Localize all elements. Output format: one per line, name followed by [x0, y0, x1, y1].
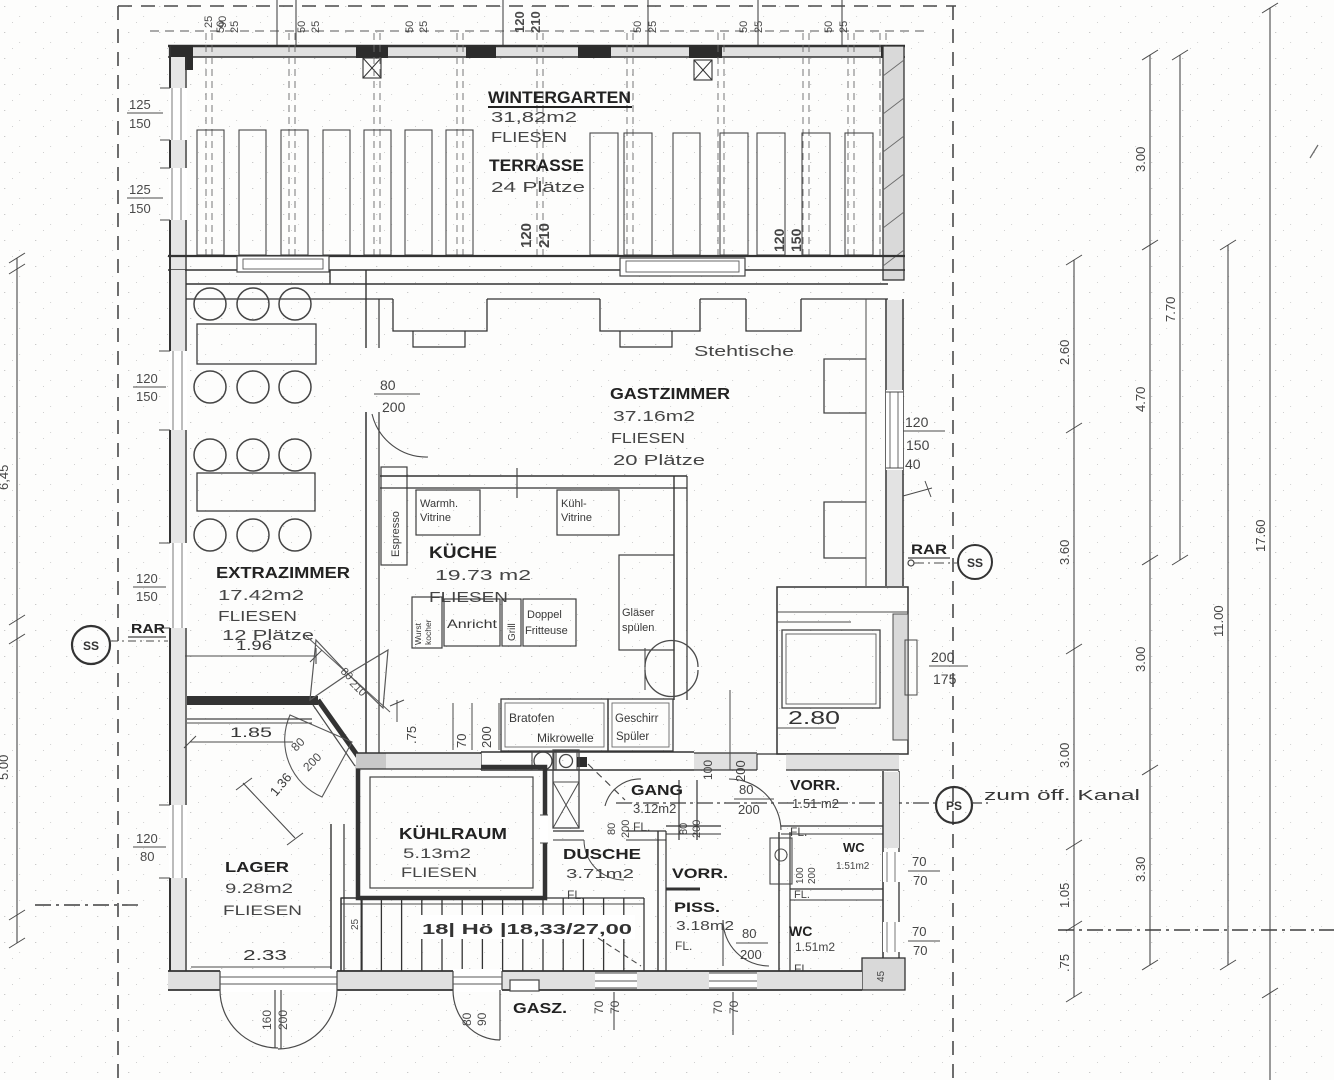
svg-text:17.42m2: 17.42m2: [218, 587, 304, 604]
window bay 3: [746, 299, 801, 331]
svg-text:FL.: FL.: [675, 939, 692, 953]
svg-text:zum öff. Kanal: zum öff. Kanal: [984, 787, 1140, 804]
fixture inner: [782, 630, 880, 708]
svg-text:5.13m2: 5.13m2: [403, 845, 471, 861]
svg-text:210: 210: [536, 223, 553, 248]
bottom wall door gap lager: [220, 969, 337, 992]
corridor door left arc: [605, 779, 641, 806]
svg-text:Doppel: Doppel: [527, 609, 562, 621]
svg-text:100: 100: [701, 760, 715, 780]
dimension chain B: [1149, 55, 1151, 965]
diagonal wall to kuehlraum: [318, 700, 362, 762]
svg-text:Geschirr: Geschirr: [615, 713, 659, 725]
svg-text:SS: SS: [83, 639, 99, 653]
post dashed lines: [205, 33, 207, 255]
washbasin: [770, 838, 792, 884]
svg-text:VORR.: VORR.: [790, 777, 840, 794]
fan door at diagonal: [285, 715, 352, 797]
svg-text:70: 70: [727, 1000, 741, 1014]
espresso counter: [381, 467, 407, 565]
svg-text:2.60: 2.60: [1057, 340, 1072, 365]
svg-text:LAGER: LAGER: [225, 859, 289, 876]
svg-text:120: 120: [518, 223, 535, 248]
svg-text:120: 120: [512, 11, 527, 33]
svg-text:WC: WC: [843, 840, 865, 855]
svg-text:spülen: spülen: [622, 622, 654, 634]
svg-text:.75: .75: [404, 726, 419, 744]
svg-text:20 Plätze: 20 Plätze: [613, 452, 705, 469]
kuehlraum outer wall: [358, 767, 545, 898]
svg-text:Stehtische: Stehtische: [694, 343, 794, 360]
svg-text:3.60: 3.60: [1057, 540, 1072, 565]
svg-text:6,45: 6,45: [0, 465, 11, 490]
svg-text:2.80: 2.80: [788, 708, 840, 728]
svg-text:150: 150: [906, 437, 930, 453]
terrace bottom wall: [168, 255, 905, 257]
svg-text:Anricht: Anricht: [447, 617, 498, 631]
dimension chain A: [1073, 260, 1075, 997]
dash-dot to SS circle: [914, 562, 957, 564]
svg-text:FLIESEN: FLIESEN: [401, 864, 477, 880]
east wall niche upper: [824, 359, 866, 413]
svg-text:4.70: 4.70: [1133, 387, 1148, 412]
dimension line 7.70: [1179, 55, 1181, 560]
extrazimmer south wall: [187, 696, 318, 705]
svg-text:Spüler: Spüler: [616, 731, 649, 743]
post detail x-boxes: [363, 58, 381, 78]
svg-text:1.51m2: 1.51m2: [795, 940, 835, 954]
svg-text:200: 200: [479, 726, 494, 748]
svg-text:24 Plätze: 24 Plätze: [491, 179, 585, 196]
window bay 2: [600, 299, 700, 331]
svg-text:2.33: 2.33: [243, 947, 287, 964]
svg-text:FL.: FL.: [567, 888, 584, 902]
kitchen west wall upper stub: [365, 270, 367, 348]
label GASZ: [510, 980, 539, 991]
svg-text:50: 50: [738, 21, 750, 33]
svg-text:120: 120: [136, 831, 158, 846]
wall between wcs: [790, 888, 883, 890]
svg-text:FLIESEN: FLIESEN: [491, 129, 567, 146]
bottom wall threshold 4: [709, 973, 757, 988]
wall band right of counter: [694, 753, 757, 770]
geschirrspueler: [608, 699, 673, 751]
svg-text:80: 80: [460, 1012, 474, 1026]
svg-text:PS: PS: [946, 799, 962, 813]
stairs: [341, 897, 644, 899]
svg-text:VORR.: VORR.: [672, 865, 728, 881]
corridor door mid: [678, 780, 680, 840]
svg-text:200: 200: [807, 867, 818, 884]
svg-text:120: 120: [771, 228, 787, 252]
svg-text:RAR: RAR: [131, 621, 166, 636]
svg-text:25: 25: [310, 21, 322, 33]
single door arc bottom: [453, 990, 500, 1040]
svg-text:FL.: FL.: [633, 820, 650, 834]
svg-text:DUSCHE: DUSCHE: [563, 846, 641, 863]
svg-text:50: 50: [632, 21, 644, 33]
svg-text:200: 200: [733, 760, 748, 782]
svg-text:Fritteuse: Fritteuse: [525, 625, 568, 637]
svg-text:3.71m2: 3.71m2: [566, 866, 634, 881]
svg-text:GANG: GANG: [631, 782, 683, 799]
terrace left wall: [171, 57, 185, 270]
svg-text:80: 80: [742, 926, 756, 941]
svg-text:Grill: Grill: [507, 623, 518, 641]
shower stall: [553, 750, 579, 828]
kuehlraum door gap: [540, 815, 548, 843]
svg-text:120: 120: [136, 571, 158, 586]
svg-text:70: 70: [592, 1000, 606, 1014]
svg-text:80: 80: [606, 823, 618, 835]
svg-text:50: 50: [404, 21, 416, 33]
svg-text:Kühl-: Kühl-: [561, 498, 587, 510]
svg-text:GASZ.: GASZ.: [513, 1000, 567, 1017]
property boundary dashed top: [118, 5, 956, 7]
svg-text:FL.: FL.: [794, 889, 810, 901]
svg-text:7.70: 7.70: [1163, 297, 1178, 322]
wall dusche-vorr: [657, 831, 659, 971]
svg-text:70: 70: [912, 924, 926, 939]
vorr door arc: [729, 779, 781, 830]
svg-text:Warmh.: Warmh.: [420, 498, 458, 510]
svg-text:3.00: 3.00: [1133, 147, 1148, 172]
terrace planks right group: [590, 133, 618, 255]
svg-text:25: 25: [753, 21, 765, 33]
kuehl vitrine: [557, 490, 619, 535]
building bottom wall: [168, 971, 862, 990]
extrazimmer table 2: [197, 473, 315, 511]
svg-text:70: 70: [913, 943, 927, 958]
terrace door threshold left: [237, 256, 329, 272]
svg-text:80: 80: [140, 849, 154, 864]
terrace planks left group: [197, 130, 224, 255]
svg-text:160: 160: [260, 1010, 274, 1030]
svg-text:25: 25: [647, 21, 659, 33]
terrace door threshold right: [620, 258, 745, 276]
east wall niche lower: [824, 502, 866, 558]
stair walking line: [598, 938, 641, 966]
east wall window: [886, 390, 903, 470]
wintergarten top wall: [168, 46, 905, 57]
svg-text:3.00: 3.00: [1133, 647, 1148, 672]
svg-text:1.85: 1.85: [230, 724, 272, 740]
wc top wall: [781, 825, 883, 827]
svg-text:120: 120: [905, 414, 929, 430]
inner dashed line above terrace wall: [150, 30, 930, 32]
terrace left wall windows: [169, 88, 187, 140]
wc door arc: [723, 920, 769, 966]
dimension line 17.60: [1269, 8, 1271, 1080]
svg-text:TERRASSE: TERRASSE: [489, 157, 584, 175]
svg-text:RAR: RAR: [911, 541, 947, 557]
svg-text:25: 25: [203, 16, 215, 28]
svg-text:11.00: 11.00: [1211, 605, 1226, 637]
svg-text:Wurst: Wurst: [413, 622, 423, 645]
svg-text:1.51 m2: 1.51 m2: [792, 796, 839, 811]
svg-text:200: 200: [931, 649, 955, 665]
svg-text:5.00: 5.00: [0, 755, 11, 780]
svg-text:100: 100: [795, 867, 806, 884]
walking line dashed: [588, 764, 625, 800]
svg-text:18| Hö |18,33/27,00: 18| Hö |18,33/27,00: [422, 921, 632, 938]
svg-text:90: 90: [475, 1012, 489, 1026]
svg-text:150: 150: [129, 201, 151, 216]
stair label: [420, 915, 635, 939]
gastzimmer east wall: [885, 299, 887, 586]
anricht: [444, 599, 500, 646]
grill: [502, 599, 521, 646]
svg-text:FL.: FL.: [790, 825, 807, 839]
svg-text:40: 40: [905, 456, 921, 472]
diagonal dim 1.36: [243, 783, 295, 838]
kuehlraum inner wall: [370, 777, 533, 888]
svg-text:150: 150: [788, 228, 804, 252]
svg-text:GASTZIMMER: GASTZIMMER: [610, 386, 730, 403]
svg-text:200: 200: [738, 802, 760, 817]
lager entrance double door arcs: [220, 990, 278, 1048]
dim tick symbol: [903, 488, 932, 496]
stair left cell: [341, 898, 362, 971]
svg-text:200: 200: [382, 399, 406, 415]
svg-text:3.00: 3.00: [1057, 743, 1072, 768]
bratofen mikrowelle: [501, 699, 608, 751]
extrazimmer chairs row 4: [194, 519, 226, 551]
svg-text:SS: SS: [967, 556, 983, 570]
svg-text:70: 70: [913, 873, 927, 888]
svg-text:1.05: 1.05: [1057, 883, 1072, 908]
extrazimmer chairs row 2: [194, 371, 226, 403]
double door bowtie symbol: [310, 640, 348, 700]
svg-text:WC: WC: [789, 923, 812, 939]
svg-text:50: 50: [296, 21, 308, 33]
svg-text:150: 150: [129, 116, 151, 131]
right wall window upper: [883, 852, 900, 882]
svg-text:KÜCHE: KÜCHE: [429, 543, 497, 562]
svg-text:17.60: 17.60: [1253, 519, 1268, 552]
canal dash-dot line: [616, 802, 936, 804]
svg-text:1.51m2: 1.51m2: [836, 861, 870, 872]
bottom wall door gap 2: [453, 969, 502, 992]
svg-text:kocher: kocher: [423, 619, 433, 645]
svg-text:WINTERGARTEN: WINTERGARTEN: [488, 89, 631, 107]
svg-text:125: 125: [129, 182, 151, 197]
building right wall lower: [882, 771, 884, 958]
svg-text:25: 25: [838, 21, 850, 33]
warmhalte vitrine: [416, 490, 480, 535]
extrazimmer table 1: [197, 324, 316, 364]
wall band below fixture: [786, 754, 899, 770]
svg-text:3.12m2: 3.12m2: [633, 801, 676, 816]
right wall window mark: [905, 640, 917, 695]
svg-text:KÜHLRAUM: KÜHLRAUM: [399, 824, 507, 843]
right dash-dot line bottom: [1058, 929, 1334, 931]
svg-text:3.30: 3.30: [1133, 857, 1148, 882]
left dash-dot segment: [35, 904, 140, 906]
svg-text:FLIESEN: FLIESEN: [223, 902, 302, 918]
svg-text:125: 125: [129, 97, 151, 112]
PS circle: [936, 787, 972, 823]
fixture 2.80 outline: [777, 587, 908, 754]
svg-text:150: 150: [136, 589, 158, 604]
kitchen west wall: [365, 412, 367, 768]
svg-text:Vitrine: Vitrine: [420, 512, 451, 524]
svg-text:25: 25: [418, 21, 430, 33]
svg-text:120: 120: [136, 371, 158, 386]
kitchen counter south wall with sinks: [481, 751, 694, 753]
corridor wall to kuehlraum: [356, 753, 386, 769]
fixture right band: [893, 614, 908, 740]
svg-text:210: 210: [528, 11, 543, 33]
svg-text:Vitrine: Vitrine: [561, 512, 592, 524]
svg-text:70: 70: [711, 1000, 725, 1014]
svg-text:200: 200: [691, 820, 703, 838]
svg-text:3.18m2: 3.18m2: [676, 918, 734, 933]
main building left wall: [171, 270, 185, 990]
svg-text:Bratofen: Bratofen: [509, 711, 554, 725]
dusche top wall: [553, 830, 584, 832]
svg-text:Espresso: Espresso: [390, 511, 402, 557]
property boundary dashed left: [117, 6, 119, 1080]
svg-text:19.73 m2: 19.73 m2: [435, 567, 531, 584]
wurstkocher: [412, 597, 442, 648]
dimension line 11.00: [1227, 245, 1229, 965]
gastzimmer north wall: [186, 283, 888, 285]
svg-text:70: 70: [608, 1000, 622, 1014]
svg-text:1.96: 1.96: [236, 637, 272, 653]
wall posts: [169, 45, 193, 58]
SS circle right: [958, 545, 992, 579]
svg-text:175: 175: [933, 671, 957, 687]
dusche door arc: [584, 840, 624, 880]
bottom wall threshold 3: [595, 973, 637, 988]
doppel fritteuse: [523, 599, 576, 646]
kitchen east wall: [673, 476, 675, 700]
svg-text:80: 80: [380, 377, 396, 393]
svg-text:31,82m2: 31,82m2: [491, 109, 577, 126]
stray mark: [1310, 145, 1318, 158]
svg-text:50: 50: [823, 21, 835, 33]
extrazimmer chairs row 1: [194, 288, 226, 320]
svg-text:EXTRAZIMMER: EXTRAZIMMER: [216, 565, 351, 582]
dimension extension lines top: [276, 0, 278, 46]
property boundary dashed right: [952, 6, 954, 1080]
kitchen north wall: [380, 475, 687, 477]
terrace right wall hatched: [883, 46, 904, 280]
window bay 1: [393, 299, 487, 331]
vorr top wall: [666, 825, 721, 827]
left dimension line: [16, 258, 18, 943]
dim 1.85: [187, 718, 312, 720]
extrazimmer chairs row 3: [194, 439, 226, 471]
svg-text:9.28m2: 9.28m2: [225, 880, 293, 896]
bottom right corner block: [862, 958, 905, 990]
svg-text:45: 45: [876, 970, 887, 982]
svg-text:Gläser: Gläser: [622, 607, 655, 619]
SS circle left: [72, 626, 110, 664]
left wall windows: [169, 351, 187, 430]
north wall step: [329, 270, 331, 284]
svg-text:.75: .75: [1057, 954, 1072, 972]
double swing door symbol: [645, 641, 698, 668]
right wall window lower: [883, 922, 900, 952]
svg-text:FLIESEN: FLIESEN: [611, 430, 685, 447]
svg-text:80: 80: [678, 823, 690, 835]
svg-text:200: 200: [620, 820, 632, 838]
svg-text:70: 70: [912, 854, 926, 869]
svg-text:25: 25: [229, 21, 241, 33]
svg-text:150: 150: [136, 389, 158, 404]
svg-text:FLIESEN: FLIESEN: [218, 608, 297, 625]
svg-text:25: 25: [350, 918, 361, 930]
lager east wall: [330, 824, 332, 971]
glaeser spuelen counter: [619, 555, 674, 650]
svg-text:Mikrowelle: Mikrowelle: [537, 731, 594, 745]
svg-text:70: 70: [454, 734, 469, 748]
svg-text:200: 200: [276, 1010, 290, 1030]
wall vorr-wc vertical: [778, 832, 780, 971]
svg-text:50: 50: [215, 21, 227, 33]
svg-text:37.16m2: 37.16m2: [613, 408, 695, 425]
svg-text:200: 200: [740, 947, 762, 962]
svg-text:PISS.: PISS.: [674, 899, 720, 915]
